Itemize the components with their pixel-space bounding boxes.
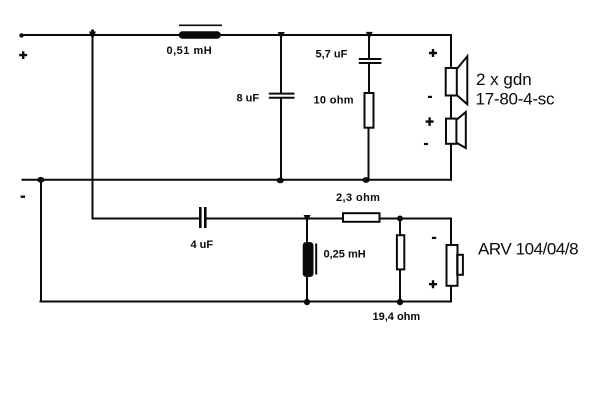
label: + (input plus) — [19, 51, 27, 59]
wire: 0,25mH branch lower segment — [306, 277, 308, 303]
capacitor C1 8 uF (plates) — [269, 94, 295, 98]
wire: tweeter loop right vertical — [450, 34, 452, 181]
capacitor C3 4 uF (plates) — [200, 207, 205, 228]
wire: 19,4 ohm branch lower segment — [399, 269, 401, 303]
svg-text:17-80-4-sc: 17-80-4-sc — [476, 90, 556, 109]
node C: junction top rail / 5,7uF branch — [366, 32, 373, 39]
label: + (LS2 plus) — [426, 117, 434, 126]
wire: 5,7uF branch upper segment — [368, 34, 370, 58]
node H: junction low-pass wire / 19,4 ohm branch — [397, 216, 403, 222]
node J: junction bottom rail / 19,4 ohm branch — [397, 299, 403, 305]
wire: segment between C2 and R1 — [368, 64, 370, 93]
wire: low-pass horizontal mid segment (C3 to node G) — [207, 218, 344, 220]
svg-text:2 x gdn: 2 x gdn — [476, 70, 532, 89]
node: + input terminal dot — [19, 33, 23, 37]
label: + (LS1 plus) — [429, 49, 437, 57]
label: - (LS3 minus) — [432, 237, 436, 239]
svg-text:0,51 mH: 0,51 mH — [167, 45, 213, 57]
svg-text:19,4 ohm: 19,4 ohm — [373, 311, 421, 323]
label: - (input minus) — [21, 196, 25, 198]
wire: bottom return rail — [40, 301, 453, 303]
capacitor C2 5,7 uF (plates) — [359, 59, 382, 63]
wire: 8uF branch upper segment — [280, 34, 282, 93]
svg-text:5,7 uF: 5,7 uF — [316, 49, 348, 61]
svg-text:2,3 ohm: 2,3 ohm — [336, 192, 380, 204]
speaker LS3 magnet box — [457, 255, 463, 275]
speaker LS2 horn — [457, 112, 466, 148]
label: + (LS3 plus) — [429, 280, 437, 288]
label: - (LS2 minus) — [424, 143, 428, 145]
wire: low-pass horizontal left segment (to C3) — [92, 218, 200, 220]
wire: + input rail (top horizontal) — [21, 34, 452, 36]
wire: segment R1 to minus rail — [368, 127, 370, 181]
wire: low-pass horizontal right segment (R2 to corner) — [380, 218, 452, 220]
svg-text:0,25 mH: 0,25 mH — [324, 249, 366, 261]
svg-text:4 uF: 4 uF — [191, 239, 214, 251]
node D: junction minus rail / left return wire — [37, 177, 44, 183]
wire: left return vertical (minus rail to bottom rail) — [40, 180, 42, 303]
wire: woofer loop right vertical — [450, 218, 452, 303]
wire: 19,4 ohm branch upper segment — [399, 218, 401, 236]
inductor L2 core line — [315, 244, 317, 275]
wire: 8uF branch lower segment — [280, 99, 282, 182]
inductor L2 0,25 mH (body) — [303, 242, 314, 277]
wire: vertical from + rail down to low-pass wire — [92, 34, 94, 220]
svg-text:10 ohm: 10 ohm — [314, 95, 354, 107]
svg-text:8 uF: 8 uF — [237, 93, 260, 105]
inductor L1 0,51 mH (body) — [179, 31, 221, 38]
svg-text:ARV 104/04/8: ARV 104/04/8 — [478, 240, 578, 259]
speaker LS1 (upper gdn driver) box — [446, 68, 457, 96]
label: - (LS1 minus) — [428, 96, 432, 98]
wire: minus rail (middle horizontal) — [22, 179, 453, 181]
speaker LS3 (ARV woofer) box — [447, 245, 458, 286]
node B: junction top rail / 8uF branch — [278, 32, 285, 39]
speaker LS2 (lower gdn driver) box — [446, 119, 456, 144]
speaker LS1 horn — [457, 56, 467, 104]
node A: junction top rail to woofer branch — [89, 30, 96, 41]
resistor R2 2,3 ohm — [343, 213, 380, 222]
inductor L1 core line — [179, 24, 222, 26]
node G: junction low-pass wire / 0,25mH branch — [304, 215, 311, 223]
node E: junction minus rail / 8uF branch — [277, 178, 284, 184]
resistor R3 19,4 ohm — [397, 235, 404, 269]
wire: 0,25mH branch upper segment — [306, 218, 308, 244]
node I: junction bottom rail / 0,25mH branch — [304, 299, 310, 305]
resistor R1 10 ohm — [365, 93, 374, 128]
node F: junction minus rail / 10 ohm branch — [362, 177, 369, 183]
